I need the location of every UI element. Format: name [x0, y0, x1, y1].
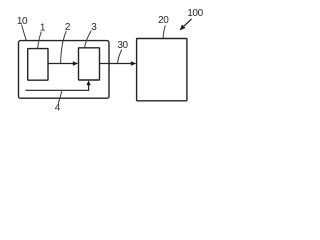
svg-text:20: 20 — [158, 15, 169, 26]
svg-text:2: 2 — [65, 22, 71, 33]
svg-text:4: 4 — [55, 103, 61, 114]
svg-text:1: 1 — [40, 23, 46, 34]
svg-text:3: 3 — [91, 22, 97, 33]
svg-text:10: 10 — [17, 16, 28, 27]
svg-text:30: 30 — [117, 40, 128, 51]
svg-text:100: 100 — [187, 8, 203, 19]
